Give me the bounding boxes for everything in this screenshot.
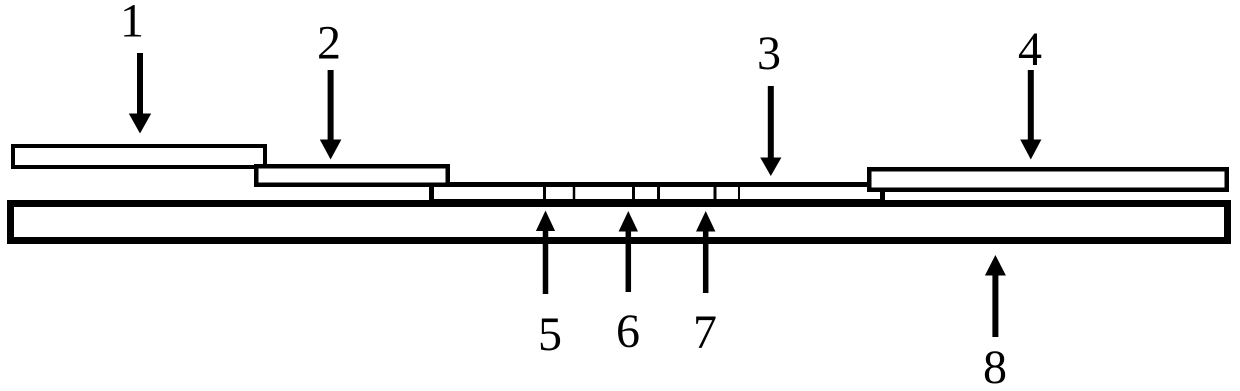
sample pad 1 bbox=[13, 146, 265, 167]
svg-text:5: 5 bbox=[538, 308, 562, 361]
svg-text:2: 2 bbox=[317, 17, 341, 70]
svg-text:1: 1 bbox=[120, 0, 144, 48]
arrow 5 bbox=[536, 211, 555, 295]
svg-text:7: 7 bbox=[693, 306, 717, 359]
arrow 2 bbox=[320, 70, 342, 160]
arrow 6 bbox=[619, 211, 638, 292]
svg-text:8: 8 bbox=[983, 341, 1007, 391]
conjugate pad 2 bbox=[256, 166, 448, 185]
control line 7 left divider bbox=[714, 185, 717, 201]
arrow 8 bbox=[985, 255, 1006, 337]
membrane 3 bbox=[432, 185, 883, 202]
svg-text:6: 6 bbox=[616, 305, 640, 358]
arrow 1 bbox=[129, 53, 151, 134]
arrow 7 bbox=[696, 211, 715, 293]
arrow 3 bbox=[760, 86, 781, 176]
test line 6 right divider bbox=[657, 185, 660, 201]
control line 7 right divider bbox=[738, 185, 740, 201]
svg-text:4: 4 bbox=[1018, 23, 1042, 76]
arrow 4 bbox=[1020, 70, 1041, 160]
backing card 8 bbox=[11, 204, 1228, 241]
svg-text:3: 3 bbox=[757, 27, 781, 80]
test line 5 right divider bbox=[573, 185, 576, 201]
test line 6 left divider bbox=[632, 185, 635, 201]
test line 5 left divider bbox=[543, 185, 546, 201]
absorbent pad 4 bbox=[869, 169, 1227, 190]
